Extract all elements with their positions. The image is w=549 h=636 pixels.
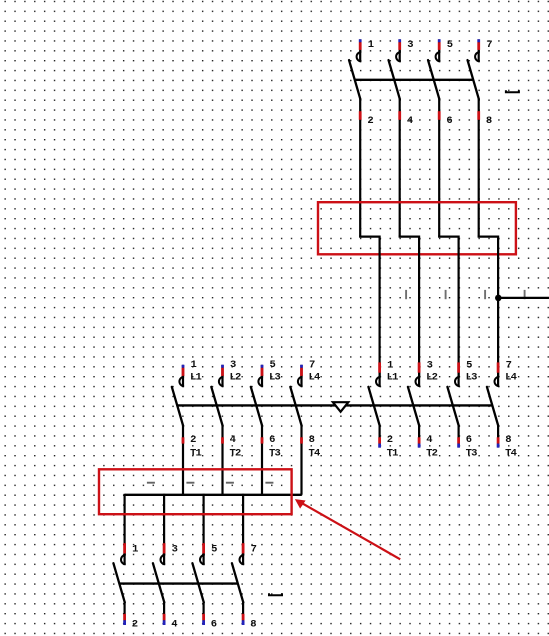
Q2 pole 4 top terminal stub (pin 7) xyxy=(497,362,499,386)
svg-text:T2: T2 xyxy=(230,448,242,460)
svg-text:7: 7 xyxy=(506,359,512,371)
wire: Q3 pole 2 lower terminal (pin 4) xyxy=(221,425,223,495)
Q4 mechanical linkage xyxy=(119,582,238,584)
accessory dash symbol (bottom) xyxy=(269,593,282,595)
gray conductor tick 1 xyxy=(405,290,407,299)
svg-text:L2: L2 xyxy=(426,372,438,384)
Q1 pole 4 moving contact xyxy=(468,60,479,99)
svg-text:T4: T4 xyxy=(505,448,517,460)
wire: Q3 pole 1 lower terminal (pin 2) xyxy=(182,425,184,495)
wire: Q2 pole 4 lower terminal (pin 8) xyxy=(497,425,499,447)
svg-text:3: 3 xyxy=(427,359,433,371)
svg-text:1: 1 xyxy=(132,544,138,556)
Q2 pole 2 top terminal stub (pin 3) xyxy=(418,362,420,386)
wire: drop to Q4 pole 1 pin 1 xyxy=(123,494,125,555)
wire: to Q2 pole 2 pin 3 xyxy=(418,238,420,377)
accessory dash symbol (top right) xyxy=(506,90,519,92)
svg-text:6: 6 xyxy=(446,115,452,127)
Q3 pole 1 top terminal stub (pin 1) xyxy=(182,365,184,387)
wire: transfer bus Q3 T-terminals to Q4 xyxy=(125,494,302,496)
Q4 pole 1 moving contact xyxy=(113,563,124,602)
Q1 pole 3 fixed contact arc xyxy=(436,52,441,61)
svg-text:2: 2 xyxy=(190,434,196,446)
svg-text:4: 4 xyxy=(407,115,413,127)
svg-text:8: 8 xyxy=(486,115,492,127)
wire: Q1 pin 4 jog to Q2 pin 3 xyxy=(400,236,419,241)
svg-text:2: 2 xyxy=(387,434,393,446)
wire: Q4 pole 3 lower terminal (pin 6) xyxy=(203,602,205,625)
Q1 pole 2 fixed contact arc xyxy=(396,52,401,61)
svg-text:T4: T4 xyxy=(309,448,321,460)
Q3 pole 1 moving contact xyxy=(172,387,183,426)
wire: Q1 pole 2 lower terminal (pin 4) xyxy=(399,99,401,237)
svg-text:L1: L1 xyxy=(190,372,202,384)
svg-text:8: 8 xyxy=(505,434,511,446)
wire: Q1 pole 3 lower terminal (pin 6) xyxy=(438,99,440,237)
Q3 pole 1 fixed contact arc xyxy=(179,377,184,386)
svg-text:6: 6 xyxy=(466,434,472,446)
wire: Q4 pole 4 lower terminal (pin 8) xyxy=(242,602,244,625)
Q3/Q2 shared mechanical linkage xyxy=(177,404,492,406)
svg-text:1: 1 xyxy=(387,359,393,371)
junction node on Q2 pin 7 wire xyxy=(495,295,502,302)
wire: Q2 pole 2 lower terminal (pin 4) xyxy=(418,425,420,447)
Q3 pole 4 top terminal stub (pin 7) xyxy=(300,365,302,387)
Q3 pole 4 fixed contact arc xyxy=(298,377,303,386)
svg-text:7: 7 xyxy=(309,359,315,371)
Q1 pole 1 fixed contact arc xyxy=(357,52,362,61)
Q4 pole 4 moving contact xyxy=(232,563,243,602)
Q2 pole 1 fixed contact arc xyxy=(376,377,381,386)
wire: Q1 pin 8 jog to Q2 pin 7 xyxy=(479,236,498,241)
svg-text:L2: L2 xyxy=(230,372,242,384)
svg-text:3: 3 xyxy=(172,544,178,556)
gray conductor tick 2 xyxy=(445,290,447,299)
Q1 pole 2 moving contact xyxy=(389,60,400,99)
Q1 pole 2 top terminal stub (pin 3) xyxy=(399,39,401,62)
Q1 pole 1 moving contact xyxy=(349,60,360,99)
linkage continuation triangle symbol xyxy=(333,402,348,412)
Q4 pole 4 top terminal stub (pin 7) xyxy=(242,543,244,565)
svg-text:3: 3 xyxy=(407,39,413,51)
Q1 pole 1 top terminal stub (pin 1) xyxy=(359,39,361,62)
wire: Q1 pin 2 jog to Q2 pin 1 xyxy=(360,236,379,241)
wire: branch to right edge xyxy=(498,297,549,299)
Q3 pole 3 moving contact xyxy=(251,387,262,426)
Q1 pole 4 top terminal stub (pin 7) xyxy=(478,39,480,62)
wire: Q2 pole 1 lower terminal (pin 2) xyxy=(379,425,381,447)
svg-text:L3: L3 xyxy=(269,372,281,384)
wire: Q1 pole 4 lower terminal (pin 8) xyxy=(478,99,480,237)
svg-text:5: 5 xyxy=(447,39,453,51)
wire: Q3 pole 3 lower terminal (pin 6) xyxy=(261,425,263,495)
svg-text:T2: T2 xyxy=(426,448,438,460)
wire: Q4 pole 2 lower terminal (pin 4) xyxy=(163,602,165,625)
Q3 pole 3 top terminal stub (pin 5) xyxy=(261,365,263,387)
Q4 pole 2 moving contact xyxy=(153,563,164,602)
svg-text:T1: T1 xyxy=(190,448,202,460)
svg-text:L3: L3 xyxy=(466,372,478,384)
Q3 pole 2 top terminal stub (pin 3) xyxy=(221,365,223,387)
svg-text:5: 5 xyxy=(466,359,472,371)
svg-text:7: 7 xyxy=(486,39,492,51)
Q2 pole 1 top terminal stub (pin 1) xyxy=(379,362,381,386)
svg-text:L4: L4 xyxy=(309,372,321,384)
svg-text:2: 2 xyxy=(132,619,138,631)
svg-text:L1: L1 xyxy=(387,372,399,384)
Q4 pole 1 fixed contact arc xyxy=(121,555,126,564)
Q3 pole 4 moving contact xyxy=(290,387,301,426)
Q2 pole 2 moving contact xyxy=(408,387,419,426)
wire: drop to Q4 pole 2 pin 3 xyxy=(163,494,165,555)
red annotation arrow xyxy=(295,499,400,559)
svg-text:1: 1 xyxy=(368,39,374,51)
Q2 pole 3 fixed contact arc xyxy=(455,377,460,386)
svg-text:8: 8 xyxy=(309,434,315,446)
gray polarity dash 1 xyxy=(147,482,155,484)
svg-text:6: 6 xyxy=(269,434,275,446)
svg-text:T3: T3 xyxy=(269,448,281,460)
Q2 pole 4 moving contact xyxy=(487,387,498,426)
svg-text:4: 4 xyxy=(171,619,177,631)
gray conductor tick 3 xyxy=(484,290,486,299)
svg-text:1: 1 xyxy=(191,359,197,371)
svg-text:T3: T3 xyxy=(466,448,478,460)
wire: drop to Q4 pole 3 pin 5 xyxy=(203,494,205,555)
wire: to Q2 pole 4 pin 7 xyxy=(497,238,499,377)
svg-text:L4: L4 xyxy=(505,372,517,384)
Q4 pole 2 top terminal stub (pin 3) xyxy=(163,543,165,565)
gray polarity dash 4 xyxy=(265,482,273,484)
Q1 pole 4 fixed contact arc xyxy=(475,52,480,61)
Q2 pole 1 moving contact xyxy=(368,387,379,426)
wire: drop to Q4 pole 4 pin 7 xyxy=(242,494,244,555)
gray conductor tick 4 xyxy=(524,290,526,299)
svg-text:5: 5 xyxy=(270,359,276,371)
svg-text:2: 2 xyxy=(367,115,373,127)
wire: to Q2 pole 1 pin 1 xyxy=(379,238,381,377)
Q4 pole 4 fixed contact arc xyxy=(240,555,245,564)
Q3 pole 2 moving contact xyxy=(211,387,222,426)
Q4 pole 3 top terminal stub (pin 5) xyxy=(203,543,205,565)
Q1 mechanical linkage xyxy=(355,79,474,81)
Q2 pole 3 top terminal stub (pin 5) xyxy=(458,362,460,386)
svg-text:4: 4 xyxy=(426,434,432,446)
Q4 pole 2 fixed contact arc xyxy=(160,555,165,564)
Q1 pole 3 moving contact xyxy=(428,60,439,99)
Q1 pole 3 top terminal stub (pin 5) xyxy=(438,39,440,62)
svg-text:4: 4 xyxy=(230,434,236,446)
Q3 pole 2 fixed contact arc xyxy=(219,377,224,386)
wire: Q1 pin 6 jog to Q2 pin 5 xyxy=(439,236,458,241)
gray polarity dash 3 xyxy=(226,482,234,484)
Q3 pole 3 fixed contact arc xyxy=(258,377,263,386)
svg-text:5: 5 xyxy=(211,544,217,556)
red highlight frame 2 (transfer wiring area) xyxy=(99,469,292,514)
svg-text:6: 6 xyxy=(211,619,217,631)
Q2 pole 3 moving contact xyxy=(447,387,458,426)
svg-text:7: 7 xyxy=(251,544,257,556)
Q4 pole 1 top terminal stub (pin 1) xyxy=(123,543,125,565)
wire: Q3 pole 4 lower terminal (pin 8) xyxy=(300,425,302,495)
wire: Q2 pole 3 lower terminal (pin 6) xyxy=(458,425,460,447)
Q4 pole 3 fixed contact arc xyxy=(200,555,205,564)
wire: Q1 pole 1 lower terminal (pin 2) xyxy=(359,99,361,237)
wire: Q4 pole 1 lower terminal (pin 2) xyxy=(123,602,125,625)
gray polarity dash 2 xyxy=(186,482,194,484)
Q4 pole 3 moving contact xyxy=(192,563,203,602)
wire: to Q2 pole 3 pin 5 xyxy=(458,238,460,377)
Q2 pole 2 fixed contact arc xyxy=(416,377,421,386)
svg-text:3: 3 xyxy=(230,359,236,371)
svg-text:T1: T1 xyxy=(387,448,399,460)
svg-text:8: 8 xyxy=(250,619,256,631)
red highlight frame 1 (phase-swap jog area) xyxy=(318,202,516,254)
Q2 pole 4 fixed contact arc xyxy=(495,377,500,386)
